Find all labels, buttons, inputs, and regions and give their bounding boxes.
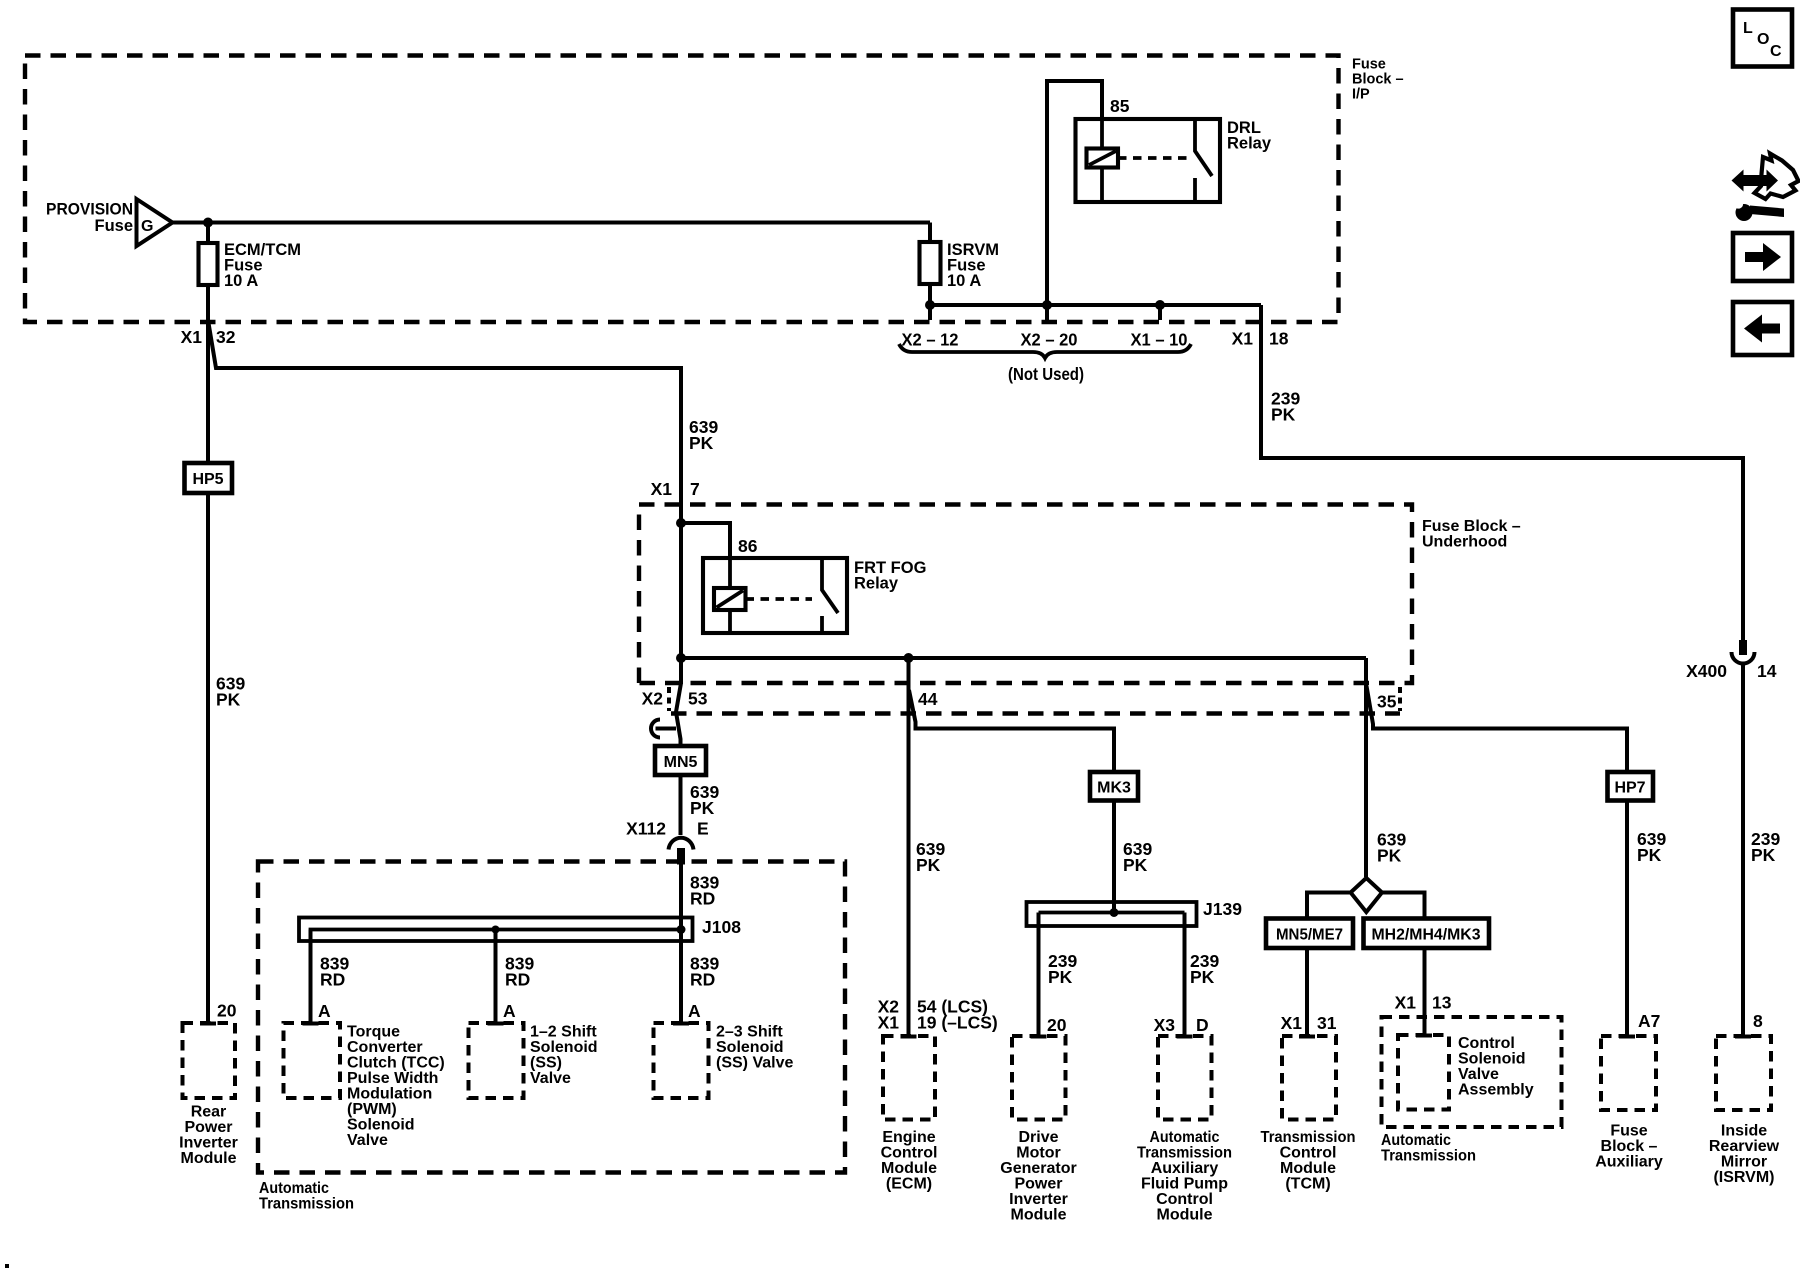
svg-text:X400: X400: [1686, 661, 1727, 681]
wire: J139 to aux fluid pump module: [1183, 913, 1187, 1037]
node: ECM/TCM fuse tap: [203, 218, 213, 228]
svg-text:Fuse: Fuse: [1610, 1123, 1647, 1140]
FRT FOG relay name: [854, 559, 926, 593]
node: bus at X2-12: [925, 300, 935, 310]
svg-text:Transmission: Transmission: [1261, 1129, 1356, 1146]
svg-text:2–3 Shift: 2–3 Shift: [716, 1024, 783, 1041]
svg-text:MH2/MH4/MK3: MH2/MH4/MK3: [1372, 927, 1481, 944]
svg-text:19 (–LCS): 19 (–LCS): [917, 1013, 998, 1033]
wire: HP7 to fuse block auxiliary: [1625, 801, 1629, 1037]
wire: DRL relay pin 85 riser: [1047, 81, 1102, 320]
svg-text:Fuse: Fuse: [1352, 57, 1386, 73]
connector X112 pin E labels: [626, 819, 709, 839]
connector X2 pin 53 labels: [642, 689, 708, 709]
label 639 PK (MN5 wire): [690, 782, 719, 818]
label 239 PK (aux pump wire): [1190, 951, 1219, 987]
svg-text:Valve: Valve: [347, 1132, 388, 1149]
svg-text:85: 85: [1110, 96, 1130, 116]
svg-text:Module: Module: [1157, 1207, 1213, 1224]
stub X2-12: [928, 305, 932, 320]
svg-text:(PWM): (PWM): [347, 1101, 397, 1118]
wire: 35 down to diamond splice: [1364, 658, 1368, 877]
svg-text:Rear: Rear: [191, 1104, 227, 1121]
svg-text:Auxiliary: Auxiliary: [1151, 1160, 1219, 1177]
svg-text:MN5: MN5: [664, 754, 698, 771]
wire: ISRVM fuse feed: [928, 223, 932, 243]
wire: X1-32 jog branch to X1-7: [209, 323, 682, 504]
1-2 shift solenoid valve label: [530, 1024, 598, 1088]
splice pack MK3: [1090, 772, 1138, 801]
svg-text:(TCM): (TCM): [1285, 1176, 1330, 1193]
svg-text:PK: PK: [1377, 846, 1402, 866]
wire: HP5 down to Rear Power Inverter Module: [206, 493, 210, 1023]
wire: J108 to 1-2 shift solenoid: [494, 930, 498, 1024]
svg-text:A: A: [503, 1001, 516, 1021]
svg-text:Pulse Width: Pulse Width: [347, 1070, 438, 1087]
Fuse Block - I/P title: [1352, 57, 1404, 103]
Automatic Transmission enclosure: [258, 862, 845, 1173]
svg-text:J108: J108: [702, 917, 741, 937]
svg-text:X1: X1: [1395, 993, 1417, 1013]
svg-text:10 A: 10 A: [224, 272, 258, 290]
svg-text:1–2 Shift: 1–2 Shift: [530, 1024, 597, 1041]
connector X400 pin 14 labels: [1686, 661, 1777, 681]
label 639 PK (diamond wire): [1377, 830, 1406, 866]
svg-text:Valve: Valve: [530, 1070, 571, 1087]
wire: X112 to J108: [679, 865, 683, 930]
svg-text:Generator: Generator: [1000, 1160, 1076, 1177]
label 239 PK (ISRVM wire): [1751, 829, 1780, 865]
svg-text:L: L: [1743, 20, 1753, 37]
splice pack MH2/MH4/MK3: [1364, 919, 1490, 949]
svg-text:Relay: Relay: [1227, 135, 1272, 153]
svg-text:X3: X3: [1154, 1015, 1176, 1035]
splice bus J108 inner bar: [311, 930, 682, 942]
svg-text:Valve: Valve: [1458, 1066, 1499, 1083]
svg-text:Power: Power: [1014, 1176, 1062, 1193]
diagnostic icon wrench: [1734, 199, 1784, 221]
brace (Not Used): [899, 344, 1191, 384]
svg-text:Solenoid: Solenoid: [716, 1039, 784, 1056]
wire: J139 to drive motor generator module: [1037, 913, 1041, 1037]
node: bus at X2-20: [1042, 300, 1052, 310]
svg-text:Inverter: Inverter: [1009, 1191, 1068, 1208]
svg-text:X1: X1: [181, 327, 203, 347]
svg-text:Relay: Relay: [854, 575, 899, 593]
svg-text:Fuse Block –: Fuse Block –: [1422, 518, 1521, 535]
svg-text:Module: Module: [881, 1160, 937, 1177]
svg-text:10 A: 10 A: [947, 272, 981, 290]
svg-text:Automatic: Automatic: [1381, 1132, 1451, 1149]
svg-text:7: 7: [690, 479, 700, 499]
svg-text:A: A: [688, 1001, 701, 1021]
svg-text:PK: PK: [916, 855, 941, 875]
svg-text:PROVISION: PROVISION: [46, 201, 133, 219]
splice bus J139 outer: [1027, 902, 1197, 926]
svg-text:Control: Control: [1156, 1191, 1213, 1208]
splice pack MN5: [655, 746, 706, 775]
svg-text:Automatic: Automatic: [259, 1180, 329, 1197]
svg-text:Fluid Pump: Fluid Pump: [1141, 1176, 1228, 1193]
1-2 shift solenoid valve box: [469, 1023, 524, 1098]
svg-text:A7: A7: [1638, 1011, 1660, 1031]
connector X400 symbol: [1732, 640, 1755, 664]
pin labels X2-12 X2-20 X1-10: [902, 330, 1188, 350]
svg-text:Mirror: Mirror: [1721, 1154, 1767, 1171]
svg-text:Automatic: Automatic: [1150, 1129, 1220, 1146]
svg-text:X2 – 12: X2 – 12: [902, 330, 959, 350]
wire: 44 down to ECM: [907, 658, 911, 1036]
node: J139 entry: [1110, 908, 1119, 917]
back navigation box: [1733, 302, 1792, 355]
svg-text:Converter: Converter: [347, 1039, 423, 1056]
svg-text:(ECM): (ECM): [886, 1176, 932, 1193]
diagnostic icon outline arrow: [1755, 154, 1799, 200]
svg-text:Motor: Motor: [1016, 1145, 1060, 1162]
svg-text:Transmission: Transmission: [259, 1196, 354, 1213]
connector X1 pin 32 labels: [181, 327, 236, 347]
wire: MH2/MH4/MK3 to control solenoid valve assembly: [1423, 948, 1427, 1035]
provision fuse label: [46, 201, 133, 236]
TCC solenoid valve label: [347, 1024, 445, 1150]
svg-text:PK: PK: [690, 798, 715, 818]
svg-text:E: E: [697, 819, 709, 839]
svg-text:Engine: Engine: [882, 1129, 935, 1146]
svg-text:(Not Used): (Not Used): [1008, 364, 1084, 384]
splice pack HP7: [1608, 772, 1654, 801]
splice bus J139 inner bar: [1039, 911, 1185, 915]
Transmission Control Module box: [1282, 1036, 1336, 1120]
fuse ISRVM 10A: [920, 242, 941, 284]
svg-text:(SS) Valve: (SS) Valve: [716, 1055, 793, 1072]
svg-text:X1 – 10: X1 – 10: [1131, 330, 1188, 350]
FRT FOG relay actuation dashed link: [746, 597, 813, 601]
label 639 PK (X1-7 wire): [689, 417, 718, 453]
wire: MN5/ME7 to TCM: [1305, 948, 1309, 1036]
Fuse Block - Auxiliary label: [1595, 1123, 1663, 1171]
ECM pin labels: [878, 997, 998, 1033]
wire: tap down to ECM/TCM fuse: [206, 223, 210, 244]
DRL relay actuation dashed link: [1118, 156, 1190, 160]
splice pack MN5/ME7: [1266, 919, 1353, 949]
node: bus at X1-10: [1155, 300, 1165, 310]
svg-text:Control: Control: [1458, 1035, 1515, 1052]
Inside Rearview Mirror box: [1716, 1036, 1771, 1110]
forward navigation box: [1733, 233, 1792, 281]
stub X1-10: [1158, 305, 1162, 320]
svg-text:53: 53: [688, 689, 708, 709]
DRL relay outline: [1076, 119, 1221, 202]
svg-text:14: 14: [1757, 661, 1777, 681]
svg-text:PK: PK: [1190, 967, 1215, 987]
Control Solenoid Valve Assembly label: [1458, 1035, 1534, 1099]
svg-text:C: C: [1770, 43, 1782, 60]
svg-text:PK: PK: [1637, 845, 1662, 865]
Fuse Block - Underhood title: [1422, 518, 1521, 551]
wire: X1-18 to X400: [1261, 305, 1743, 640]
2-3 shift solenoid valve label: [716, 1024, 793, 1072]
svg-text:Auxiliary: Auxiliary: [1595, 1154, 1663, 1171]
svg-text:Inside: Inside: [1721, 1123, 1767, 1140]
svg-text:20: 20: [1047, 1015, 1067, 1035]
2-3 shift solenoid valve box: [654, 1023, 709, 1098]
Automatic Transmission Aux Fluid Pump Control Module label: [1137, 1129, 1232, 1224]
svg-text:PK: PK: [689, 433, 714, 453]
ECM/TCM fuse label: [224, 241, 301, 290]
svg-text:MN5/ME7: MN5/ME7: [1276, 927, 1343, 944]
label 839 RD (TCC wire): [320, 954, 349, 990]
underhood connector band right closure: [1398, 687, 1402, 711]
Fuse Block - I/P enclosure: [25, 56, 1339, 323]
svg-text:X2: X2: [642, 689, 664, 709]
underhood connector band left closure: [667, 687, 671, 711]
svg-text:RD: RD: [690, 970, 715, 990]
wire: provision fuse to ISRVM fuse: [173, 221, 931, 225]
svg-text:PK: PK: [1751, 845, 1776, 865]
svg-text:X112: X112: [626, 819, 666, 839]
wire: MK3 to J139: [1112, 801, 1116, 913]
svg-text:MK3: MK3: [1097, 780, 1131, 797]
svg-text:Solenoid: Solenoid: [347, 1117, 415, 1134]
svg-text:Module: Module: [181, 1150, 237, 1167]
node: J108 middle tap: [492, 926, 500, 934]
fuse ECM/TCM 10A: [199, 243, 218, 285]
svg-text:RD: RD: [690, 889, 715, 909]
Automatic Transmission title: [259, 1180, 354, 1213]
DRL relay name: [1227, 119, 1272, 153]
pin X1 13 labels (control solenoid): [1395, 993, 1452, 1013]
svg-text:Control: Control: [1280, 1145, 1337, 1162]
Rear Power Inverter Module label: [179, 1104, 238, 1168]
wire: X400 to inside rearview mirror: [1741, 664, 1745, 1037]
svg-text:Inverter: Inverter: [179, 1135, 238, 1152]
wire: I/P internal bus: [930, 303, 1261, 307]
FRT FOG relay switch: [822, 558, 838, 633]
svg-text:Control: Control: [881, 1145, 938, 1162]
Fuse Block - Underhood enclosure: [639, 505, 1412, 684]
svg-text:Clutch (TCC): Clutch (TCC): [347, 1055, 445, 1072]
svg-text:Drive: Drive: [1018, 1129, 1058, 1146]
svg-text:X1: X1: [878, 1013, 900, 1033]
label 639 PK (MK3 wire): [1123, 839, 1152, 875]
Transmission Control Module label: [1261, 1129, 1356, 1193]
inline connector hook at X2-53: [651, 720, 676, 738]
label 639 PK (HP7 wire): [1637, 829, 1666, 865]
connector X1 pin 7 labels: [651, 479, 700, 499]
TCC solenoid valve box: [284, 1023, 341, 1098]
svg-text:44: 44: [918, 689, 938, 709]
Automatic Transmission (right) title: [1381, 1132, 1476, 1165]
svg-text:8: 8: [1753, 1011, 1763, 1031]
svg-text:A: A: [318, 1001, 331, 1021]
diagnostic icon double arrow: [1732, 170, 1779, 192]
svg-text:Transmission: Transmission: [1381, 1148, 1476, 1165]
FRT FOG relay pin 86 internal lead: [728, 558, 732, 633]
wire: J108 to TCC solenoid: [309, 930, 313, 1024]
svg-text:RD: RD: [505, 970, 530, 990]
Drive Motor Generator Power Inverter Module label: [1000, 1129, 1076, 1224]
FRT FOG relay outline: [703, 558, 847, 633]
svg-text:Module: Module: [1280, 1160, 1336, 1177]
Automatic Transmission Aux Fluid Pump Control Module box: [1158, 1036, 1212, 1120]
svg-text:X1: X1: [651, 479, 673, 499]
provision fuse G symbol: [137, 199, 173, 246]
DRL relay coil: [1087, 149, 1119, 168]
svg-text:PK: PK: [1271, 405, 1296, 425]
svg-text:O: O: [1757, 31, 1769, 48]
pin X3 D labels (aux pump): [1154, 1015, 1209, 1035]
svg-text:RD: RD: [320, 970, 345, 990]
wire: J108 to 2-3 shift solenoid: [679, 930, 683, 1024]
label 239 PK (X1-18 wire): [1271, 389, 1300, 425]
svg-text:31: 31: [1317, 1013, 1337, 1033]
connector X1 pin 18 labels: [1232, 329, 1289, 349]
wire: diamond to MN5/ME7: [1307, 893, 1351, 919]
svg-text:20: 20: [217, 1001, 237, 1021]
svg-text:J139: J139: [1203, 899, 1242, 919]
DRL relay pin 85 internal lead: [1100, 119, 1104, 202]
wire: X2-53 jog: [676, 683, 681, 746]
connector X112 symbol: [669, 838, 694, 865]
svg-text:Solenoid: Solenoid: [1458, 1051, 1526, 1068]
label 639 PK (HP5 wire): [216, 674, 245, 710]
label 839 RD (2-3 wire): [690, 954, 719, 990]
svg-text:HP5: HP5: [192, 471, 223, 488]
wire: diamond to MH2/MH4/MK3: [1382, 893, 1425, 919]
svg-text:I/P: I/P: [1352, 87, 1370, 103]
node: bus left end: [676, 653, 686, 663]
svg-text:Transmission: Transmission: [1137, 1145, 1232, 1162]
node: FRT FOG relay tap: [676, 518, 686, 528]
splice bus J108 outer: [299, 918, 693, 942]
wire: ISRVM fuse to bus: [928, 284, 932, 305]
svg-text:13: 13: [1432, 993, 1452, 1013]
svg-text:18: 18: [1269, 329, 1289, 349]
wire: bus to 35: [681, 656, 1366, 660]
label 639 PK (ECM wire): [916, 839, 945, 875]
svg-text:Assembly: Assembly: [1458, 1082, 1534, 1099]
Drive Motor Generator Power Inverter Module box: [1012, 1036, 1066, 1120]
svg-text:(SS): (SS): [530, 1055, 562, 1072]
svg-text:X1: X1: [1281, 1013, 1303, 1033]
ISRVM fuse label: [947, 241, 999, 290]
svg-text:Block –: Block –: [1601, 1138, 1658, 1155]
Automatic Transmission (right) enclosure: [1382, 1017, 1562, 1127]
DRL relay switch: [1195, 119, 1212, 202]
svg-text:32: 32: [216, 327, 236, 347]
Rear Power Inverter Module box: [183, 1023, 236, 1098]
wire: MN5 to X112: [679, 775, 683, 835]
label 839 RD (1-2 wire): [505, 954, 534, 990]
Engine Control Module box: [883, 1036, 935, 1120]
node: J108 entry: [677, 925, 686, 934]
wire: 35 jog branch to HP7: [1367, 686, 1628, 772]
wire: 44 jog branch to MK3: [909, 690, 1114, 772]
svg-text:Power: Power: [184, 1119, 232, 1136]
svg-text:Underhood: Underhood: [1422, 534, 1507, 551]
wire: underhood distribution bus: [679, 504, 683, 684]
LOC legend box: [1733, 10, 1792, 67]
svg-text:86: 86: [738, 536, 758, 556]
svg-text:Solenoid: Solenoid: [530, 1039, 598, 1056]
svg-text:Module: Module: [1011, 1207, 1067, 1224]
svg-text:(ISRVM): (ISRVM): [1713, 1169, 1774, 1186]
pin X1 31 labels (TCM): [1281, 1013, 1337, 1033]
svg-text:PK: PK: [1048, 967, 1073, 987]
Engine Control Module label: [881, 1129, 938, 1193]
svg-text:PK: PK: [216, 690, 241, 710]
svg-text:Fuse: Fuse: [94, 217, 133, 235]
svg-text:Torque: Torque: [347, 1024, 400, 1041]
svg-text:35: 35: [1377, 692, 1397, 712]
FRT FOG relay coil: [714, 588, 746, 610]
Control Solenoid Valve Assembly box: [1398, 1035, 1449, 1110]
svg-text:X1: X1: [1232, 329, 1254, 349]
underhood connector band lower edge: [671, 711, 1400, 715]
svg-text:Rearview: Rearview: [1709, 1138, 1780, 1155]
wire: ECM/TCM fuse down to HP5: [206, 285, 210, 463]
stray mark: [5, 1264, 9, 1268]
svg-text:X2 – 20: X2 – 20: [1021, 330, 1078, 350]
svg-text:D: D: [1196, 1015, 1209, 1035]
wire: tap to FRT FOG relay pin 86: [681, 523, 730, 558]
label 839 RD (X112 wire): [690, 873, 719, 909]
svg-text:PK: PK: [1123, 855, 1148, 875]
label 239 PK (drive motor wire): [1048, 951, 1077, 987]
Fuse Block - Auxiliary box: [1601, 1036, 1656, 1110]
svg-text:HP7: HP7: [1614, 780, 1645, 797]
svg-text:G: G: [141, 218, 153, 235]
splice pack HP5: [185, 463, 233, 493]
node: bus at 44: [904, 653, 914, 663]
splice diamond: [1351, 878, 1382, 912]
svg-text:Modulation: Modulation: [347, 1086, 432, 1103]
Inside Rearview Mirror label: [1709, 1123, 1780, 1187]
svg-text:Block –: Block –: [1352, 72, 1404, 88]
